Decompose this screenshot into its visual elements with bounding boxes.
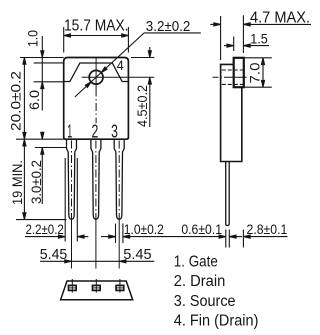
left extension lines (body top, chamfer top, chamfer bottom, body bottom, shoulder) xyxy=(16,58,67,220)
side view lead xyxy=(226,162,230,226)
leader 3.2±0.2 (hole dia) xyxy=(75,33,201,97)
svg-text:0.6±0.1: 0.6±0.1 xyxy=(181,221,222,237)
dimension 1.0 / 6.0 (left stacked) xyxy=(41,36,43,111)
svg-text:2: 2 xyxy=(92,121,99,142)
svg-text:3. Source: 3. Source xyxy=(174,293,236,310)
dimension 1.5 (fin thickness) xyxy=(224,37,269,52)
svg-text:3.0±0.2: 3.0±0.2 xyxy=(28,160,44,204)
dimension 0.6±0.1 (lead thickness, side view) xyxy=(226,230,242,248)
svg-text:19 MIN.: 19 MIN. xyxy=(9,160,25,205)
front view chamfer step xyxy=(64,63,129,82)
svg-text:20.0±0.2: 20.0±0.2 xyxy=(8,71,24,131)
svg-text:6.0: 6.0 xyxy=(26,90,42,110)
svg-text:15.7 MAX.: 15.7 MAX. xyxy=(64,17,129,34)
svg-text:1. Gate: 1. Gate xyxy=(174,254,218,271)
bottom view lead 3 section xyxy=(116,279,124,293)
side view body xyxy=(221,64,242,161)
svg-text:7.0: 7.0 xyxy=(247,62,263,83)
front view body outline xyxy=(64,58,129,140)
svg-text:2.8±0.1: 2.8±0.1 xyxy=(247,221,288,237)
hole horizontal centerline / 4.5 extension xyxy=(82,76,155,78)
lead 1 (gate) xyxy=(67,139,77,219)
dimension 7.0 (fin height) xyxy=(245,58,272,87)
svg-text:5.45: 5.45 xyxy=(123,246,151,263)
dimension 3.0±0.2 xyxy=(41,132,43,140)
svg-text:4.7 MAX.: 4.7 MAX. xyxy=(250,10,310,27)
svg-text:2. Drain: 2. Drain xyxy=(174,273,226,290)
bottom view lead 1 section xyxy=(69,279,77,293)
package vertical centerline xyxy=(95,58,97,89)
dimension 2.8±0.1 (lead to back face) xyxy=(243,230,287,248)
dimension 4.5±0.2 (right of front view) xyxy=(131,57,154,59)
svg-text:3.2±0.2: 3.2±0.2 xyxy=(146,19,191,35)
dimension 20.0±0.2 xyxy=(23,58,25,140)
dimension 15.7 MAX xyxy=(64,27,129,53)
mounting hole circle xyxy=(89,70,103,84)
dimension 2.2±0.2 (lead width) xyxy=(25,158,88,242)
dimension 5.45 (lead pitch, left) xyxy=(40,260,154,262)
svg-text:4: 4 xyxy=(117,58,124,73)
bottom view lead 2 section xyxy=(93,279,101,293)
lead 3 centerline xyxy=(118,141,120,218)
svg-text:4. Fin (Drain): 4. Fin (Drain) xyxy=(174,312,259,329)
dimension 1.0±0.2 (lead tip width) xyxy=(101,224,226,244)
lead 2 (drain) xyxy=(91,139,101,219)
side view fin boss xyxy=(234,58,244,87)
lead 1 centerline xyxy=(71,141,73,218)
svg-text:5.45: 5.45 xyxy=(40,246,68,263)
svg-text:4.5±0.2: 4.5±0.2 xyxy=(134,85,150,127)
dimension 19 MIN. xyxy=(23,139,25,219)
side view hole hidden lines xyxy=(222,69,244,71)
svg-text:2.2±0.2: 2.2±0.2 xyxy=(26,221,64,237)
bottom view trapezoid xyxy=(61,281,133,300)
dimension 4.7 MAX xyxy=(210,15,311,60)
lead 2 centerline xyxy=(95,141,97,218)
svg-text:1.0±0.2: 1.0±0.2 xyxy=(124,221,164,237)
svg-text:1.5: 1.5 xyxy=(250,30,268,46)
side view hole centerline xyxy=(213,76,247,78)
svg-text:3: 3 xyxy=(111,121,118,142)
lead 3 (source) xyxy=(114,139,124,219)
svg-text:1.0: 1.0 xyxy=(25,30,41,47)
svg-text:1: 1 xyxy=(67,121,72,142)
